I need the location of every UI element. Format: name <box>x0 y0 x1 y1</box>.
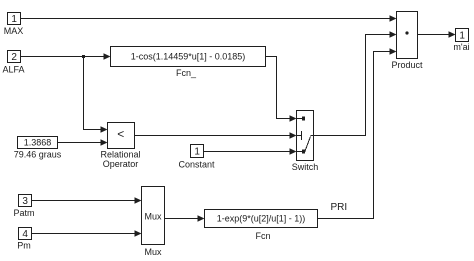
constant 1 <box>178 145 215 170</box>
wire Relational Operator output to Switch input 2 <box>135 132 297 139</box>
svg-text:Product: Product <box>391 60 423 70</box>
wire ALFA to Fcn_ input <box>21 53 111 60</box>
svg-text:PRI: PRI <box>330 202 347 213</box>
wire Fcn output to Product input 3 <box>318 48 397 218</box>
wire Patm to Mux input 1 <box>32 197 142 204</box>
svg-text:Mux: Mux <box>144 212 162 222</box>
svg-text:3: 3 <box>22 196 28 207</box>
svg-text:m'ai: m'ai <box>453 42 469 52</box>
inport 3 Patm <box>13 195 34 219</box>
svg-text:ALFA: ALFA <box>2 65 24 75</box>
wire 1.3868 to Relational Operator input 2 <box>58 139 108 146</box>
svg-text:Operator: Operator <box>103 159 139 169</box>
svg-text:1.3868: 1.3868 <box>24 138 52 148</box>
wire Switch output to Product input 2 <box>314 31 397 135</box>
svg-text:4: 4 <box>22 229 28 240</box>
svg-text:Constant: Constant <box>178 160 215 170</box>
outport 1 m'ai <box>453 29 469 53</box>
junction node on ALFA wire <box>82 55 85 58</box>
svg-text:MAX: MAX <box>4 26 24 36</box>
svg-text:79.46 graus: 79.46 graus <box>14 150 62 160</box>
svg-text:1: 1 <box>459 31 465 42</box>
relational operator block <box>100 123 140 170</box>
svg-text:Switch: Switch <box>292 162 319 172</box>
wire MAX to Product input 1 <box>21 15 397 22</box>
constant 1.3868 <box>14 137 62 160</box>
svg-text:1: 1 <box>194 147 200 158</box>
svg-text:<: < <box>117 127 124 141</box>
svg-text:Relational: Relational <box>100 150 140 160</box>
svg-text:Mux: Mux <box>144 247 162 257</box>
Fcn block 1-exp(9*(u[2]/u[1] - 1)) <box>205 210 318 242</box>
signal label PRI <box>330 202 347 213</box>
product block <box>391 12 423 71</box>
svg-text:Patm: Patm <box>13 208 34 218</box>
Fcn_ block 1-cos(1.14459*u[1] - 0.0185) <box>111 47 266 79</box>
inport 1 MAX <box>4 13 24 37</box>
svg-text:Fcn: Fcn <box>255 231 270 241</box>
switch block <box>292 111 319 173</box>
wire Product output to outport <box>418 31 456 38</box>
wire junction down to Relational Operator input 1 <box>84 57 108 133</box>
inport 2 ALFA <box>2 51 24 75</box>
svg-text:1: 1 <box>11 14 17 25</box>
mux block <box>142 187 165 258</box>
svg-text:Fcn_: Fcn_ <box>176 68 197 78</box>
wire Mux output to Fcn input <box>165 215 205 222</box>
svg-text:Pm: Pm <box>17 241 31 251</box>
svg-text:2: 2 <box>11 52 17 63</box>
wire Constant to Switch input 3 <box>204 148 297 155</box>
svg-text:1-exp(9*(u[2]/u[1] - 1)): 1-exp(9*(u[2]/u[1] - 1)) <box>217 214 306 224</box>
inport 4 Pm <box>17 228 31 251</box>
svg-text:1-cos(1.14459*u[1] - 0.0185): 1-cos(1.14459*u[1] - 0.0185) <box>131 52 246 62</box>
wire Fcn_ output to Switch input 1 <box>266 57 297 122</box>
wire Pm to Mux input 2 <box>32 230 142 237</box>
